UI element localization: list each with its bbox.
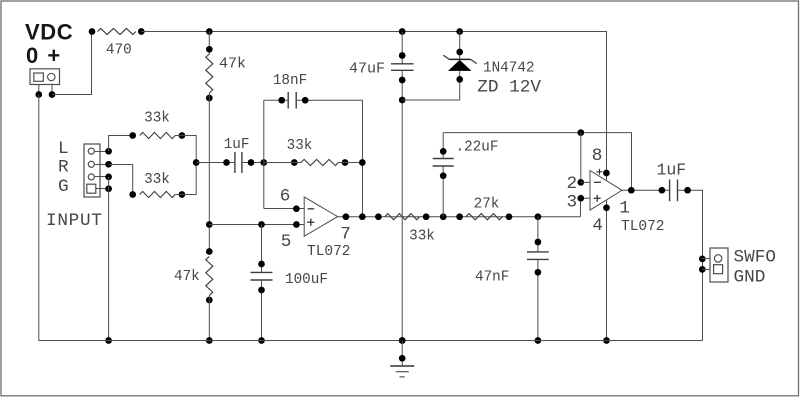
wire c22 upper lead — [442, 133, 444, 159]
node 47k-top a — [206, 46, 213, 53]
node bias plus-line — [206, 221, 213, 228]
wire minus-node vertical — [263, 100, 265, 208]
wire zener top lead — [459, 32, 461, 60]
node 47k-top b — [206, 95, 213, 102]
node C1 right — [248, 159, 255, 166]
label SWFO — [734, 248, 776, 268]
op-amp U1B plus sign — [594, 195, 601, 202]
capacitor 47nF — [527, 252, 549, 260]
node 47k gnd-rail — [206, 337, 213, 344]
label 33k R-input — [144, 172, 170, 188]
op-amp U1A minus sign — [308, 208, 315, 210]
node mix tap — [193, 159, 200, 166]
node pin8 — [603, 170, 610, 177]
label pin 5 — [281, 232, 292, 252]
node pin4 gnd-rail — [603, 337, 610, 344]
label pin 7 — [340, 225, 351, 245]
op-amp U1B vplus sign — [597, 169, 603, 175]
node c22 bottom — [440, 172, 447, 179]
svg-text:1N4742: 1N4742 — [483, 61, 534, 77]
wire L to R-top — [109, 136, 133, 152]
label pin 4 — [592, 216, 603, 236]
connector J2 INPUT — [84, 144, 100, 197]
wire U2 feedback top — [443, 133, 631, 191]
label 470 — [106, 43, 132, 59]
node 47nF gnd-rail — [535, 337, 542, 344]
node minus-node mid — [260, 159, 267, 166]
svg-text:.22uF: .22uF — [456, 140, 499, 156]
capacitor 100uF — [251, 272, 273, 280]
label U1A TL072 — [307, 244, 351, 260]
wire U1A output line — [338, 216, 581, 218]
node 33kA right — [179, 132, 186, 139]
node J1 pin1 — [35, 91, 42, 98]
wire bias vertical — [208, 93, 210, 252]
svg-text:33k: 33k — [409, 229, 435, 245]
capacitor .22uF — [433, 159, 454, 167]
node J2 R — [105, 161, 112, 168]
node C4 right — [684, 187, 691, 194]
node pin3 — [577, 195, 584, 202]
node 27k left — [456, 213, 463, 220]
resistor 33k series — [385, 214, 420, 220]
node 100uF top — [258, 261, 265, 268]
svg-text:33k: 33k — [144, 172, 170, 188]
wire 33kFB right lead — [339, 162, 363, 164]
node pin4 — [603, 204, 610, 211]
resistor 47k upper — [206, 54, 213, 93]
capacitor 1uF output — [670, 180, 678, 202]
svg-text:ZD 12V: ZD 12V — [477, 78, 541, 98]
label pin 6 — [280, 186, 291, 206]
svg-text:33k: 33k — [144, 111, 170, 127]
label 33k feedback — [287, 138, 313, 154]
wire gnd-sym lead — [401, 341, 403, 367]
op-amp U1A TL072 — [304, 197, 337, 236]
node gnd-sym rail — [399, 337, 406, 344]
op-amp U1B minus sign — [594, 181, 601, 183]
svg-text:3: 3 — [566, 192, 577, 212]
label 0 + — [26, 43, 62, 68]
label 18nF — [273, 73, 307, 89]
connector J3 output — [710, 248, 728, 282]
label 27k — [474, 197, 500, 213]
node J3 GND — [699, 266, 706, 273]
wire J3 GND stub — [702, 269, 710, 271]
node rail 47uF tap — [399, 28, 406, 35]
node zener bottom — [456, 76, 463, 83]
node fb pin2 tap — [577, 129, 584, 136]
wire J1 pin1 stub — [38, 85, 40, 95]
wire V+ rail — [141, 32, 606, 181]
node 100uF bottom — [258, 287, 265, 294]
wire 47uF bottom lead — [401, 70, 403, 340]
node 33kS right — [423, 213, 430, 220]
svg-text:SWFO: SWFO — [734, 248, 776, 268]
label pin 8 — [592, 146, 603, 166]
node rail 47k tap — [206, 28, 213, 35]
label pin 3 — [566, 192, 577, 212]
node 27k right — [506, 213, 513, 220]
node J3 SWFO — [699, 256, 706, 263]
svg-text:27k: 27k — [474, 197, 500, 213]
svg-text:4: 4 — [592, 216, 603, 236]
wire pin8 drop — [606, 173, 608, 180]
wire ground rail — [39, 95, 703, 341]
wire pin2 vertical — [580, 133, 582, 183]
wire 100uF top lead — [261, 225, 263, 273]
resistor 47k lower — [206, 257, 213, 296]
wire 47nF upper lead — [537, 217, 539, 252]
label VDC — [25, 20, 73, 45]
label INPUT — [46, 211, 103, 231]
node 47uF zener join — [399, 97, 406, 104]
node 100uF gnd-rail — [258, 337, 265, 344]
svg-text:G: G — [58, 177, 69, 197]
label 1N4742 — [483, 61, 534, 77]
capacitor 18nF — [288, 92, 296, 109]
label 47k lower — [174, 269, 200, 285]
svg-text:33k: 33k — [287, 138, 313, 154]
wire C4 to J3 — [678, 190, 703, 340]
svg-text:5: 5 — [281, 232, 292, 252]
wire J2 pin3 stub — [95, 176, 109, 178]
svg-text:INPUT: INPUT — [46, 211, 103, 231]
svg-text:TL072: TL072 — [307, 244, 351, 260]
label L — [58, 139, 69, 159]
node c22 mid-tap — [440, 213, 447, 220]
wire 100uF bottom lead — [261, 280, 263, 341]
svg-text:7: 7 — [340, 225, 351, 245]
wire R to R-bot — [109, 165, 133, 195]
svg-text:2: 2 — [566, 174, 577, 194]
node J1 pin2 — [49, 91, 56, 98]
wire zener bottom lead — [402, 71, 460, 100]
wire J1 pin2 stub — [51, 85, 53, 95]
wire C1 to minus-node — [242, 162, 264, 164]
label 1uF input — [224, 137, 250, 153]
node pin5 — [293, 221, 300, 228]
node 33kS left — [375, 213, 382, 220]
label 33k L-input — [144, 111, 170, 127]
node out1 fb — [359, 213, 366, 220]
resistor 33k R-input — [140, 191, 176, 197]
node 47nF mid-tap — [535, 213, 542, 220]
node 47uF bottom — [399, 77, 406, 84]
node 18nF left — [278, 97, 285, 104]
svg-text:100uF: 100uF — [285, 272, 328, 288]
capacitor 47uF — [391, 64, 414, 71]
op-amp U1A plus sign — [307, 219, 314, 226]
wire J2 pin L stub — [95, 151, 109, 153]
svg-text:1: 1 — [619, 199, 630, 219]
label 47k upper — [219, 56, 246, 73]
label U1B TL072 — [621, 219, 665, 235]
wire 33kB to mix — [175, 163, 196, 195]
node 33kFB right — [342, 159, 349, 166]
node pin6 — [293, 205, 300, 212]
node rail-470 right — [138, 28, 145, 35]
wire 47k-top lead — [208, 32, 210, 55]
node plus 100uF tap — [258, 221, 265, 228]
label .22uF — [456, 140, 499, 156]
wire J2 pin G stub — [96, 188, 109, 190]
resistor 27k — [466, 214, 502, 220]
resistor 33k feedback — [301, 159, 339, 165]
svg-text:18nF: 18nF — [273, 73, 307, 89]
node 47k-bot b — [206, 297, 213, 304]
label R — [58, 158, 69, 178]
wire 47uF top lead — [401, 32, 403, 64]
node 47nF top — [535, 239, 542, 246]
wire 33kA to mix — [175, 136, 196, 163]
node rail zener tap — [456, 28, 463, 35]
svg-text:GND: GND — [734, 268, 766, 288]
node 33kFB left — [291, 159, 298, 166]
svg-text:8: 8 — [592, 146, 603, 166]
node 47uF top — [399, 52, 406, 59]
node J2 pin3 — [105, 174, 112, 181]
op-amp U1B TL072 — [590, 171, 622, 211]
node 33kB right — [179, 191, 186, 198]
svg-text:47nF: 47nF — [475, 270, 509, 286]
connector J1 VDC — [30, 69, 60, 85]
node C4 left — [659, 187, 666, 194]
node gnd-sym — [399, 355, 406, 362]
svg-text:47k: 47k — [174, 269, 200, 285]
wire pin4 drop — [606, 200, 608, 341]
wire pin2 stub — [581, 181, 590, 183]
label G — [58, 177, 69, 197]
wire 47nF lower lead — [537, 259, 539, 340]
capacitor 1uF input — [235, 152, 242, 173]
wire J2 pin R stub — [95, 164, 109, 166]
ground — [390, 366, 414, 377]
wire 47k-bot to gnd rail — [208, 296, 210, 341]
wire U1B output — [622, 189, 670, 191]
node J2 G — [105, 185, 112, 192]
wire c22 lower lead — [442, 166, 444, 217]
wire J3 SWFO stub — [702, 258, 710, 260]
label 47uF — [349, 61, 385, 78]
wire pin6 lead — [264, 208, 304, 210]
svg-text:47uF: 47uF — [349, 61, 385, 78]
node 47k-bot a — [206, 248, 213, 255]
svg-text:470: 470 — [106, 43, 132, 59]
wire 18nF right lead — [296, 100, 362, 217]
resistor 470 — [98, 28, 137, 34]
resistor 33k L-input — [140, 132, 176, 138]
label pin 1 — [619, 199, 630, 219]
node rail-470 left — [89, 28, 96, 35]
node c22 top — [440, 148, 447, 155]
node feedback vert join — [359, 159, 366, 166]
node out1 a — [343, 213, 350, 220]
wire J1 pin2 to rail — [52, 32, 92, 95]
node J2 L — [105, 148, 112, 155]
node 33kB left — [129, 191, 136, 198]
wire mix to C1 — [196, 162, 235, 164]
svg-text:0 +: 0 + — [26, 43, 62, 68]
wire 33kFB left lead — [264, 162, 301, 164]
label pin 2 — [566, 174, 577, 194]
svg-text:R: R — [58, 158, 69, 178]
node 18nF right — [302, 97, 309, 104]
svg-text:TL072: TL072 — [621, 219, 665, 235]
node 47uF gnd-rail — [399, 337, 406, 344]
svg-text:47k: 47k — [219, 56, 246, 73]
wire 18nF left lead — [264, 99, 288, 101]
label 100uF — [285, 272, 328, 288]
label 33k series — [409, 229, 435, 245]
svg-text:1uF: 1uF — [656, 161, 686, 180]
svg-text:1uF: 1uF — [224, 137, 250, 153]
node out2 — [628, 187, 635, 194]
label ZD 12V — [477, 78, 541, 98]
node zener top — [456, 49, 463, 56]
svg-text:L: L — [58, 139, 69, 159]
svg-text:VDC: VDC — [25, 20, 73, 45]
label 1uF output — [656, 161, 686, 180]
zener diode 1N4742 — [443, 55, 476, 71]
svg-text:6: 6 — [280, 186, 291, 206]
wire plus line — [209, 224, 304, 226]
node 33kA left — [129, 132, 136, 139]
wire J2 gnd drop — [108, 177, 110, 341]
node pin2 — [577, 179, 584, 186]
label 47nF — [475, 270, 509, 286]
node C1 left — [223, 159, 230, 166]
label GND — [734, 268, 766, 288]
wire pin3 riser — [581, 198, 591, 217]
node 47nF bottom — [535, 269, 542, 276]
node J2 gnd-rail — [105, 337, 112, 344]
